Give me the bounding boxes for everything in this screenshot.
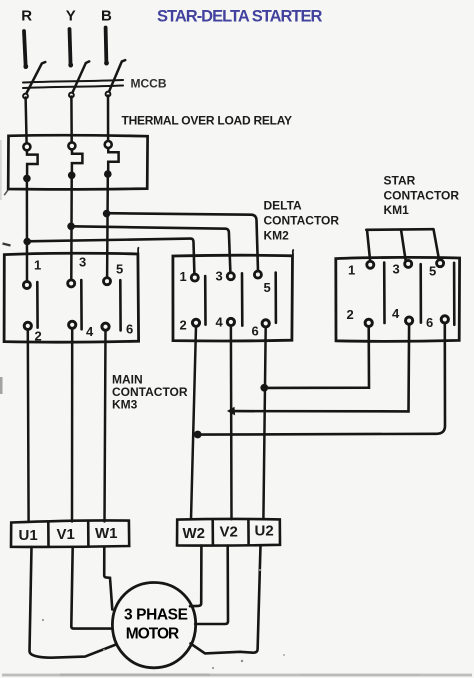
svg-text:U2: U2 <box>255 523 274 540</box>
svg-text:KM2: KM2 <box>264 229 290 243</box>
svg-text:V1: V1 <box>57 526 75 543</box>
svg-text:CONTACTOR: CONTACTOR <box>264 214 340 228</box>
svg-text:2: 2 <box>347 307 354 322</box>
svg-text:W2: W2 <box>183 525 206 542</box>
svg-text:1: 1 <box>180 269 187 284</box>
svg-text:KM3: KM3 <box>112 398 138 412</box>
svg-text:Y: Y <box>66 8 76 25</box>
svg-text:5: 5 <box>429 264 436 279</box>
svg-text:6: 6 <box>126 322 133 337</box>
svg-text:6: 6 <box>252 324 259 339</box>
svg-text:3: 3 <box>393 262 400 277</box>
svg-text:B: B <box>101 8 112 25</box>
svg-text:KM1: KM1 <box>384 203 410 217</box>
svg-text:1: 1 <box>34 258 41 273</box>
svg-text:5: 5 <box>264 280 271 295</box>
svg-text:2: 2 <box>180 318 187 333</box>
svg-text:5: 5 <box>116 262 123 277</box>
svg-text:CONTACTOR: CONTACTOR <box>384 189 460 203</box>
svg-text:3: 3 <box>79 255 86 270</box>
svg-text:THERMAL OVER LOAD RELAY: THERMAL OVER LOAD RELAY <box>122 114 293 128</box>
svg-text:V2: V2 <box>220 524 238 541</box>
svg-text:STAR-DELTA STARTER: STAR-DELTA STARTER <box>157 8 322 26</box>
svg-text:3 PHASE: 3 PHASE <box>124 607 188 624</box>
svg-text:MOTOR: MOTOR <box>126 626 179 643</box>
svg-text:STAR: STAR <box>384 174 416 188</box>
svg-text:DELTA: DELTA <box>264 199 303 213</box>
svg-text:6: 6 <box>426 315 433 330</box>
svg-text:4: 4 <box>86 324 94 339</box>
svg-text:3: 3 <box>216 269 223 284</box>
svg-text:W1: W1 <box>95 525 118 542</box>
svg-text:2: 2 <box>35 329 42 344</box>
svg-text:4: 4 <box>392 306 400 321</box>
svg-text:U1: U1 <box>19 527 38 544</box>
svg-text:MCCB: MCCB <box>131 77 167 91</box>
svg-text:4: 4 <box>216 315 224 330</box>
svg-text:1: 1 <box>348 263 355 278</box>
svg-text:R: R <box>21 8 32 25</box>
